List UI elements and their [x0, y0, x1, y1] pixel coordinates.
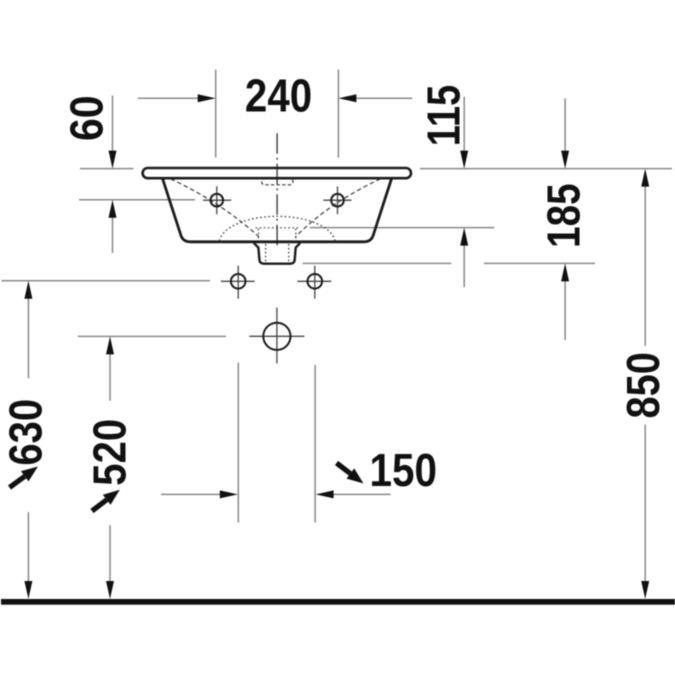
- svg-text:115: 115: [418, 85, 469, 147]
- svg-text:630: 630: [1, 399, 52, 466]
- svg-text:240: 240: [245, 71, 312, 122]
- svg-text:185: 185: [538, 183, 589, 247]
- svg-text:850: 850: [618, 352, 669, 418]
- svg-text:150: 150: [370, 446, 438, 497]
- svg-text:520: 520: [85, 419, 136, 486]
- svg-text:60: 60: [62, 96, 113, 142]
